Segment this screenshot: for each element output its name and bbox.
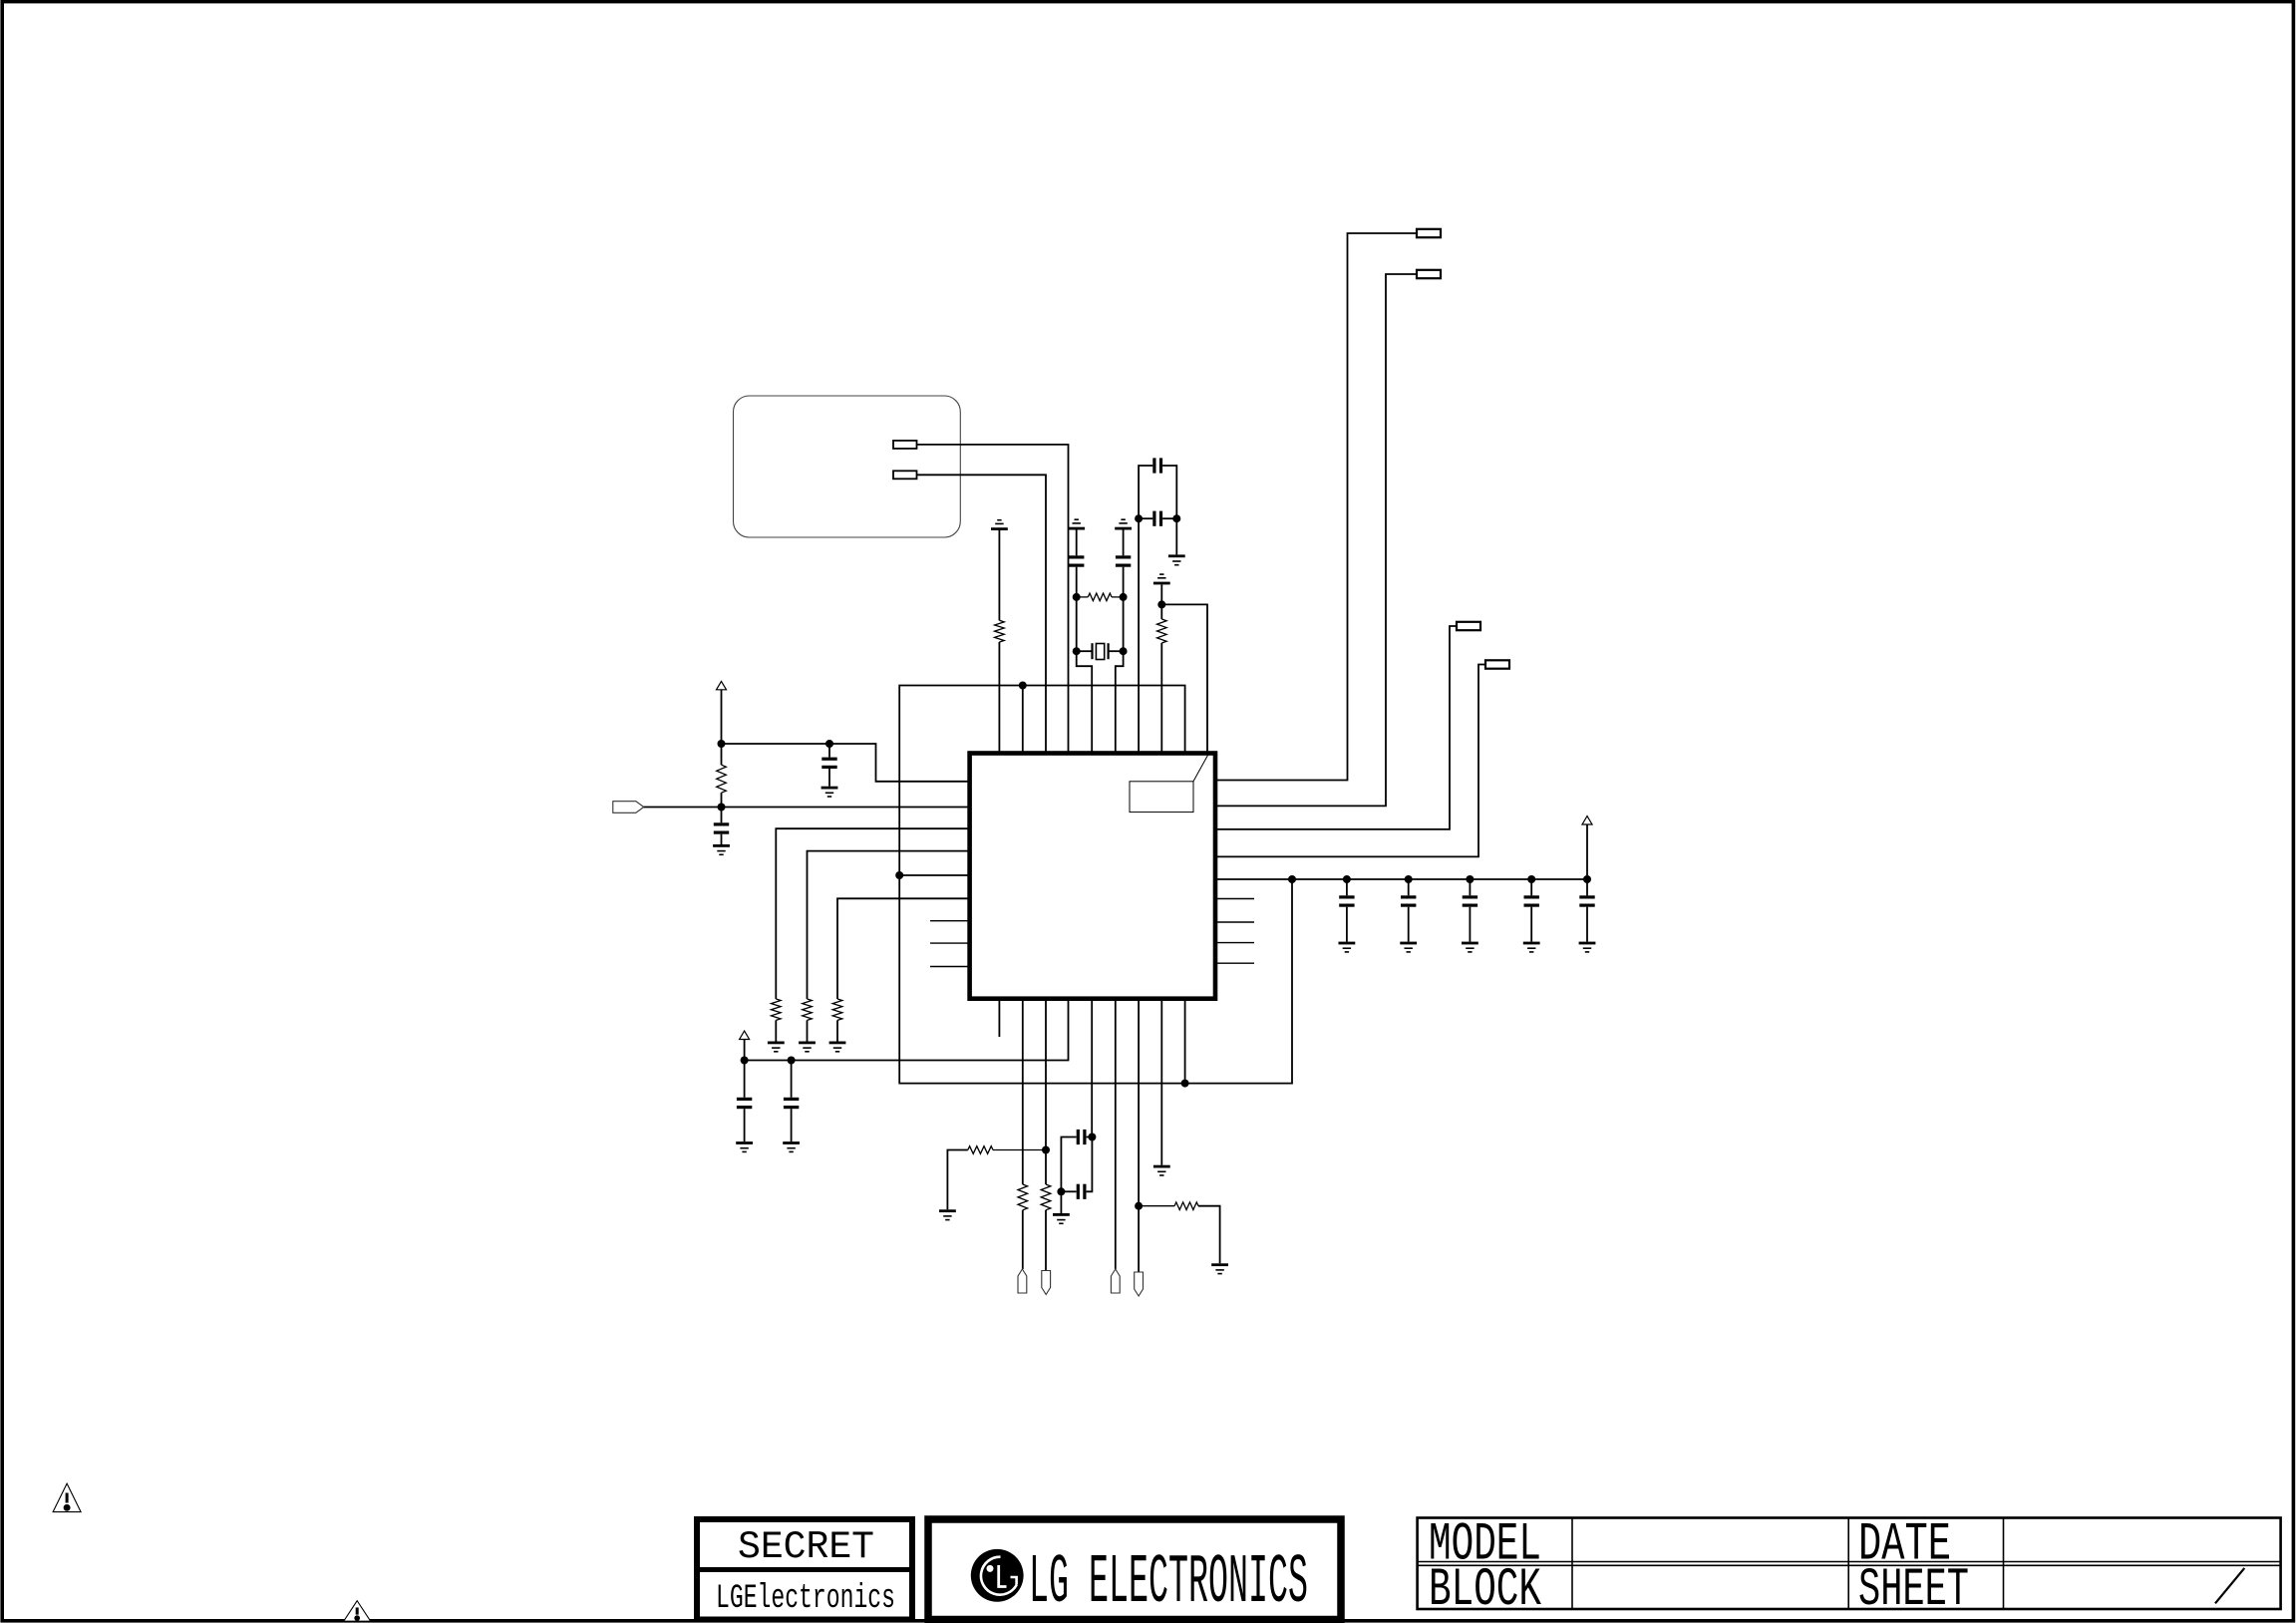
off-page flag 2 <box>1042 1271 1051 1295</box>
connector J4 <box>1485 660 1509 668</box>
decoupling capacitor C10 <box>1530 879 1532 895</box>
junction bus cap 4 <box>1527 875 1535 883</box>
connector J1 <box>1417 229 1441 237</box>
connector pin P1 in module box <box>893 441 917 449</box>
junction C4 left <box>1135 514 1143 522</box>
junction bus/loop <box>1288 875 1296 883</box>
junction R11 node <box>1135 1202 1143 1210</box>
ground below C8 <box>1400 942 1417 945</box>
wire gnd to C1 <box>1076 530 1078 556</box>
decoupling capacitor C8 <box>1408 879 1410 895</box>
junction crystal left <box>1073 647 1081 655</box>
SECRET box <box>697 1519 912 1620</box>
node RST <box>1157 600 1165 608</box>
wire U1 pin to R5 <box>776 828 968 999</box>
table column divider 3 <box>2003 1518 2005 1610</box>
ground below C4 <box>1168 554 1185 557</box>
junction node on loop <box>1019 682 1027 690</box>
connector J3 <box>1457 622 1480 630</box>
resistor R6 <box>803 999 813 1020</box>
SECRET box divider <box>694 1567 915 1572</box>
U1 inner label box <box>1130 782 1193 812</box>
wire U1 pin x=1118 to flag <box>1115 1000 1117 1269</box>
connector pin P2 in module box <box>893 471 917 479</box>
U1 right no-connect stub 2 <box>1217 921 1255 923</box>
wire gnd to C2 <box>1123 530 1125 556</box>
junction cap pair top <box>1088 1134 1096 1141</box>
wire U1 pin x=1165 to ground <box>1160 1000 1162 1165</box>
resistor R5 <box>772 999 782 1020</box>
wire R1 to ground above <box>998 530 1000 620</box>
U1 left no-connect stub 1 <box>930 920 968 922</box>
wire P2 to U1 top pin <box>917 475 1047 753</box>
capacitor C15 (horizontal) <box>1061 1190 1076 1192</box>
ground below R6 <box>799 1042 816 1045</box>
ground below C5 <box>821 787 838 790</box>
resistor R1 (vertical) <box>995 620 1005 642</box>
ground below cap pair <box>1053 1213 1070 1216</box>
junction C4 right <box>1172 514 1180 522</box>
junction bus cap 5 <box>1583 875 1591 883</box>
node NETIN <box>718 804 726 811</box>
off-page flag 4 <box>1135 1272 1144 1296</box>
capacitor C2 <box>1116 555 1131 558</box>
resistor R7 <box>832 999 842 1020</box>
ground below pin x=1165 <box>1153 1165 1170 1168</box>
resistor R10 <box>1041 1184 1051 1210</box>
junction R9/R10 node <box>1042 1146 1050 1154</box>
wire R3 to U1 <box>1160 643 1162 752</box>
power VCC arrow (bus) <box>1586 824 1588 879</box>
resistor R11 (horizontal) <box>1139 1205 1174 1207</box>
VCC wire to U1 bottom pin <box>745 1000 1069 1061</box>
capacitor C5 <box>828 744 830 758</box>
junction bus cap 3 <box>1466 875 1474 883</box>
wire U1 pin x=1049 down <box>1045 1000 1047 1184</box>
wire U1 pin to connector J4 <box>1217 665 1486 857</box>
decoupling capacitor C7 <box>1346 879 1348 895</box>
ground below C13 <box>783 1141 800 1144</box>
VDD bus wire right of U1 <box>1217 878 1588 880</box>
wire C2 to node <box>1123 567 1125 597</box>
warning triangle 1 <box>53 1483 81 1512</box>
wire U1 pin to R8 <box>1022 1000 1024 1184</box>
LG logo <box>971 1549 1024 1602</box>
junction loop/pin <box>895 871 903 879</box>
ground below C12 <box>736 1141 753 1144</box>
table row divider <box>1418 1561 2281 1563</box>
capacitor C6 below node <box>721 808 723 823</box>
wire C1 to node <box>1076 567 1078 597</box>
capacitor C14 (horizontal) <box>1087 1136 1093 1138</box>
wire U1 pin to connector J2 <box>1217 274 1418 806</box>
wire crystal right to U1 <box>1116 651 1124 752</box>
wire U1 top pin x=1025 to loop <box>1022 686 1024 752</box>
ground (inverted) above node <box>1153 582 1170 585</box>
wire U1 pin to R7 <box>837 898 968 999</box>
svg-text:SECRET: SECRET <box>738 1525 874 1569</box>
resistor R9 (horizontal) <box>993 1149 1046 1151</box>
svg-text:BLOCK: BLOCK <box>1429 1560 1541 1621</box>
ground (inverted) above C1 <box>1068 527 1085 530</box>
wire U1 top pin to R network (x=1002) <box>998 642 1000 752</box>
wire node XO down <box>1123 597 1125 651</box>
U1 left no-connect stub 2 <box>930 942 968 944</box>
node XI <box>1073 593 1081 601</box>
wire R8 to flag <box>1022 1210 1024 1269</box>
junction cap pair bottom <box>1057 1187 1065 1195</box>
off-page flag 3 <box>1111 1269 1120 1293</box>
wire U1 pin x=1095 to cap pair <box>1091 1000 1093 1137</box>
ground below R9 <box>939 1209 956 1212</box>
wire node right to U1 <box>722 744 969 782</box>
wire C4 right to ground <box>1175 518 1177 554</box>
junction bus cap 1 <box>1343 875 1351 883</box>
ground (inverted) above R1 <box>991 527 1008 530</box>
wire P1 to U1 top pin <box>917 445 1069 754</box>
wire VCC to node <box>744 1040 746 1061</box>
junction cap C12 <box>788 1057 796 1065</box>
resistor R2 (across crystal) <box>1088 593 1112 601</box>
wire crystal left to U1 <box>1077 651 1093 752</box>
wire node to U1 pin x=1211 <box>1161 604 1207 751</box>
wire U1 pin to connector J3 <box>1217 626 1458 829</box>
ground below C9 <box>1462 942 1478 945</box>
ground (inverted) above C2 <box>1115 527 1132 530</box>
junction crystal right <box>1120 647 1128 655</box>
input connector flag (left) <box>613 802 644 813</box>
wire U1 pin to loop junction <box>899 874 968 876</box>
capacitor C4 (horizontal) <box>1139 517 1152 519</box>
node VCC-left <box>718 740 726 748</box>
capacitor C12 <box>744 1061 746 1098</box>
wire U1 pin x=1142 up <box>1138 518 1140 752</box>
wire U1 pin to R6 <box>808 851 969 999</box>
U1 pin-1 notch diagonal <box>1193 756 1208 782</box>
wire U1 pin x=1142 down <box>1138 1000 1140 1272</box>
U1 right no-connect stub 4 <box>1217 962 1255 964</box>
resistor R4 (vertical) <box>721 744 723 765</box>
ground below C11 <box>1579 942 1596 945</box>
svg-text:SHEET: SHEET <box>1858 1560 1969 1621</box>
capacitor C3 (top, horizontal) <box>1139 466 1152 518</box>
wire VCC down to node <box>721 690 723 744</box>
junction pin/loop <box>1181 1080 1189 1088</box>
decoupling capacitor C11 <box>1586 879 1588 895</box>
ground below R11 <box>1211 1263 1228 1266</box>
wire R9 to ground <box>947 1150 967 1210</box>
svg-text:LG ELECTRONICS: LG ELECTRONICS <box>1029 1544 1308 1623</box>
module box (rounded rectangle) <box>734 396 961 537</box>
wire junction to ground <box>1060 1191 1062 1213</box>
wire U1 pin to top connector J1 <box>1217 233 1418 781</box>
resistor R3 (vertical) <box>1160 604 1162 619</box>
off-page flag 1 <box>1018 1269 1027 1293</box>
wire U1 pin x=1188 to loop <box>1184 1000 1186 1084</box>
IC U1 <box>970 754 1215 999</box>
table column divider 1 <box>1571 1518 1573 1610</box>
U1 left no-connect stub 3 <box>930 966 968 968</box>
table column divider 2 <box>1847 1518 1849 1610</box>
capacitor C13 <box>791 1061 793 1098</box>
warning triangle 2 <box>344 1601 371 1622</box>
U1 bottom stub pin x=1002 <box>998 1000 1000 1037</box>
crystal Y1 <box>1077 650 1093 652</box>
svg-text:LGElectronics: LGElectronics <box>716 1580 895 1618</box>
wire node XI down <box>1076 597 1078 651</box>
capacitor C1 <box>1069 555 1084 558</box>
ground below R5 <box>768 1042 785 1045</box>
sheet number slash <box>2215 1568 2244 1603</box>
wire R11 to ground <box>1198 1206 1220 1264</box>
ground below C6 <box>713 844 730 847</box>
resistor R8 <box>1018 1184 1028 1210</box>
wire flag to U1 <box>644 807 968 809</box>
power VCC arrow (bottom) <box>740 1031 750 1039</box>
title table <box>1418 1518 2281 1610</box>
connector J2 <box>1417 270 1441 278</box>
LG ELECTRONICS box <box>928 1519 1341 1620</box>
U1 right no-connect stub 3 <box>1217 942 1255 944</box>
node XO <box>1120 593 1128 601</box>
power VCC arrow (left) <box>717 681 727 689</box>
decoupling capacitor C9 <box>1469 879 1471 895</box>
ground below C10 <box>1523 942 1540 945</box>
U1 right no-connect stub 1 <box>1217 898 1255 900</box>
wire gnd down to node <box>1160 584 1162 604</box>
ground below R7 <box>829 1042 846 1045</box>
node VCC-bottom <box>741 1057 749 1065</box>
junction cap tap <box>825 740 833 748</box>
wire R10 to flag <box>1045 1210 1047 1271</box>
wire loop around U1 left side <box>899 686 1292 1084</box>
ground below C7 <box>1339 942 1356 945</box>
junction bus cap 2 <box>1405 875 1413 883</box>
